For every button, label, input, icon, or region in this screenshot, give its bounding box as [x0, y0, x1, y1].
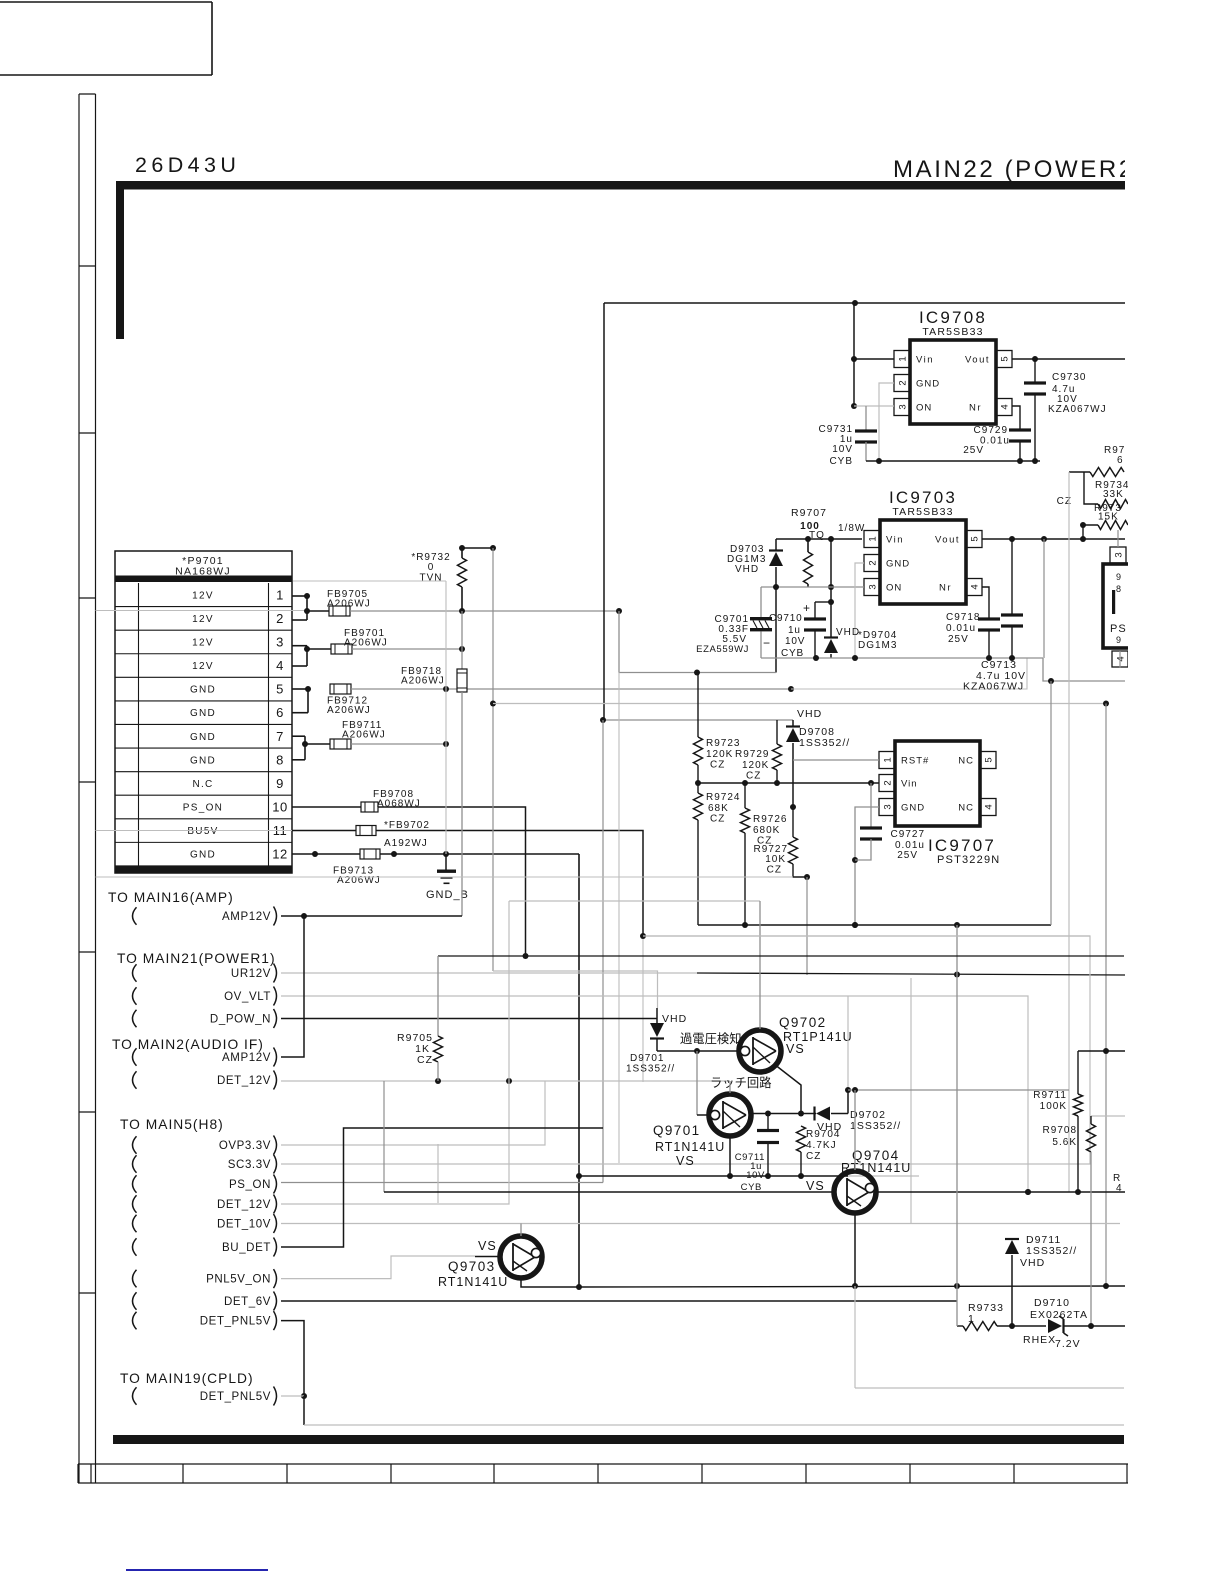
wire VHD node row y=703.5 — [493, 703, 1106, 705]
wire IC9708 input rail — [853, 303, 855, 406]
wire DET_12V row to latch — [281, 1080, 730, 1082]
node UR12V — [133, 964, 137, 982]
svg-text:3: 3 — [882, 804, 893, 809]
svg-text:*FB9702: *FB9702 — [384, 820, 430, 831]
wire BU5V from pin 11 — [292, 830, 356, 832]
diode D9710 EX0262TA zener — [1048, 1319, 1062, 1333]
wire OV_VLT — [281, 996, 1028, 1192]
svg-text:PNL5V_ON: PNL5V_ON — [206, 1273, 271, 1285]
resistor R97xx (clipped at right edge) — [1069, 471, 1090, 473]
svg-text:VS: VS — [478, 1239, 497, 1253]
resistor R9727 10K — [792, 807, 794, 837]
svg-text:10V: 10V — [785, 636, 805, 647]
svg-text:4: 4 — [969, 584, 980, 589]
svg-text:OVP3.3V: OVP3.3V — [219, 1140, 271, 1152]
svg-text:TAR5SB33: TAR5SB33 — [892, 506, 953, 518]
svg-text:ON: ON — [916, 403, 932, 414]
resistor R9732 0 ohm — [461, 548, 463, 558]
fuse FB9718 (vertical) — [457, 669, 467, 692]
svg-text:KZA067WJ: KZA067WJ — [1048, 404, 1107, 415]
wire DET_PNL5V cpld — [281, 1395, 304, 1397]
svg-text:1SS352//: 1SS352// — [626, 1064, 675, 1075]
svg-text:1SS352//: 1SS352// — [1026, 1245, 1077, 1257]
wire Q9702 collector down — [774, 1064, 801, 1114]
wire PNL5V_ON to Q9703 base — [281, 1256, 475, 1279]
wire IC9703 pin2 gnd — [855, 563, 864, 658]
wire IC9707 pin1 RST — [793, 759, 879, 761]
svg-text:VHD: VHD — [735, 564, 759, 575]
svg-text:過電圧検知: 過電圧検知 — [680, 1032, 742, 1046]
wire SC3.3V — [281, 936, 1090, 1164]
wire light vertical x=911 — [910, 978, 912, 1224]
wire light vertical x=848 upper — [847, 996, 849, 1090]
svg-text:SC3.3V: SC3.3V — [228, 1159, 271, 1171]
wire OVP3.3V — [281, 1081, 545, 1145]
capacitor C9710 — [815, 601, 831, 603]
node DET_12V (H8) — [133, 1195, 137, 1213]
svg-text:VS: VS — [676, 1154, 695, 1168]
svg-text:6: 6 — [276, 705, 284, 720]
transistor Q9702 RT1P141U — [739, 1030, 781, 1072]
svg-text:1: 1 — [867, 536, 878, 541]
svg-text:PS_ON: PS_ON — [229, 1179, 271, 1191]
svg-text:5: 5 — [999, 356, 1010, 361]
svg-text:12: 12 — [272, 847, 287, 862]
wire y=672 link — [618, 611, 620, 673]
transistor Q9703 RT1N141U — [500, 1236, 542, 1278]
wire 12V chain through FB9718 — [461, 611, 463, 669]
svg-text:5: 5 — [983, 757, 994, 762]
capacitor C9718 — [978, 617, 1000, 620]
resistor R9724 68K — [697, 783, 699, 793]
wire Q9703 base stub — [475, 1256, 501, 1258]
svg-text:9: 9 — [1116, 572, 1122, 582]
svg-text:GND: GND — [916, 379, 940, 390]
svg-text:Q9703: Q9703 — [448, 1259, 496, 1274]
wire emitter rail y=1287 right part — [580, 1286, 1125, 1287]
svg-text:0: 0 — [428, 562, 435, 573]
resistor R9733 1 ohm — [957, 1325, 963, 1327]
wire Q9702 base row — [657, 1050, 738, 1052]
svg-text:+: + — [803, 601, 811, 615]
node DET_PNL5V — [133, 1312, 137, 1330]
resistor R9705 1K — [437, 956, 439, 1036]
wire DET_6V vertical — [956, 925, 958, 1326]
wire right node vertical x=1051 — [1050, 681, 1052, 925]
wire D9702 up to node 1090 — [847, 1090, 849, 1114]
svg-text:IC9703: IC9703 — [889, 488, 957, 507]
capacitor C9731 — [865, 406, 867, 431]
wire gnd rail corner to right — [1043, 658, 1125, 681]
wire D_POW_N — [281, 1018, 657, 1020]
svg-text:IC9707: IC9707 — [928, 836, 996, 855]
svg-text:26D43U: 26D43U — [135, 153, 240, 177]
svg-text:GND: GND — [190, 685, 216, 696]
wire long mid vertical x=603 (lower) — [602, 720, 604, 1183]
svg-text:9: 9 — [1116, 635, 1122, 645]
wire 12V chain to AMP12V — [461, 692, 463, 916]
svg-text:VS: VS — [786, 1042, 805, 1056]
svg-text:MAIN22 (POWER2: MAIN22 (POWER2 — [893, 156, 1135, 183]
svg-text:DET_PNL5V: DET_PNL5V — [200, 1391, 271, 1403]
svg-text:R9708: R9708 — [1043, 1125, 1077, 1136]
svg-text:TAR5SB33: TAR5SB33 — [922, 326, 983, 338]
diode D9704 DG1M3 — [830, 602, 832, 638]
wire emitter rail y=1176 — [579, 1175, 848, 1177]
svg-text:C9727: C9727 — [891, 829, 925, 840]
svg-text:EZA559WJ: EZA559WJ — [696, 644, 749, 655]
svg-text:Vin: Vin — [886, 535, 904, 546]
svg-text:KZA067WJ: KZA067WJ — [963, 681, 1024, 693]
resistor R9704 4.7KJ — [797, 1126, 806, 1152]
wire pins 5-6 GND bracket — [292, 688, 308, 690]
svg-text:68K: 68K — [708, 803, 729, 814]
svg-text:A206WJ: A206WJ — [327, 599, 371, 610]
svg-text:AMP12V: AMP12V — [222, 1052, 271, 1064]
svg-text:R9704: R9704 — [806, 1129, 840, 1140]
wire 12V-B rail after FB9701 — [352, 648, 462, 650]
svg-text:Vin: Vin — [901, 779, 918, 790]
wire DET_12V (H8) — [281, 901, 509, 1204]
svg-text:CZ: CZ — [710, 760, 725, 771]
svg-text:VS: VS — [806, 1179, 825, 1193]
svg-text:A206WJ: A206WJ — [327, 705, 371, 716]
fuse FB9712 — [330, 684, 351, 694]
svg-text:Nr: Nr — [939, 583, 952, 594]
svg-text:9: 9 — [276, 776, 284, 791]
svg-text:12V: 12V — [192, 661, 214, 672]
wire R9707 top node — [776, 538, 862, 540]
svg-text:100K: 100K — [1040, 1101, 1067, 1112]
resistor R9723 120K — [697, 673, 699, 738]
page frame: left margin column with section ticks — [78, 94, 80, 1483]
diode D9702 1SS352 — [816, 1107, 830, 1121]
wire top feed rail — [604, 302, 1125, 304]
wire R9727 node down — [806, 877, 808, 975]
svg-text:DET_PNL5V: DET_PNL5V — [200, 1315, 271, 1327]
wire Q9702 emitter up — [759, 901, 761, 1029]
wire VS row y=901 — [509, 900, 760, 902]
svg-text:CZ: CZ — [1057, 496, 1072, 507]
svg-text:VHD: VHD — [797, 708, 822, 720]
svg-text:PST3229N: PST3229N — [937, 854, 1000, 866]
svg-text:25V: 25V — [963, 445, 984, 456]
svg-text:5.6K: 5.6K — [1052, 1137, 1077, 1148]
wire IC9708 ground rail — [866, 460, 1040, 462]
svg-text:Q9701: Q9701 — [653, 1123, 701, 1138]
wire SC/BU mid rows — [643, 935, 1090, 937]
svg-text:AMP12V: AMP12V — [222, 911, 271, 923]
diode D9703 DG1M3 — [775, 539, 777, 551]
capacitor C9713 — [1011, 539, 1013, 615]
wire resistor-net bottom rail y=925 — [698, 924, 1051, 926]
connector P9701 NA168WJ table — [115, 551, 292, 873]
IC9702 partial (clipped at right edge) — [1103, 564, 1143, 648]
wire Q9701 collector up — [729, 1081, 731, 1093]
wire PS_ON run to latch area — [378, 807, 526, 956]
svg-text:4: 4 — [983, 804, 994, 809]
svg-text:NC: NC — [958, 756, 974, 767]
svg-text:25V: 25V — [948, 634, 969, 645]
svg-text:15K: 15K — [1098, 512, 1119, 523]
svg-text:R9711: R9711 — [1033, 1090, 1067, 1101]
svg-text:GND: GND — [190, 732, 216, 743]
svg-text:TO MAIN19(CPLD): TO MAIN19(CPLD) — [120, 1371, 254, 1386]
wire IC9708 pin2 to ground rail (gray) — [879, 383, 894, 461]
wire VHD feed to D9701 — [493, 971, 658, 1008]
resistor R9708 5.6K — [1091, 1115, 1125, 1117]
svg-text:1u: 1u — [788, 625, 801, 636]
svg-text:GND: GND — [190, 850, 216, 861]
diode D9711 1SS352 — [1005, 1238, 1019, 1240]
resistor R9734 33K — [1084, 472, 1098, 504]
svg-text:Vout: Vout — [935, 535, 960, 546]
wire rail y=1192 (base row) — [384, 1191, 833, 1193]
svg-text:OV_VLT: OV_VLT — [224, 991, 271, 1003]
svg-text:4.7KJ: 4.7KJ — [806, 1140, 837, 1151]
svg-text:4: 4 — [276, 658, 284, 673]
capacitor C9727 — [870, 783, 872, 828]
svg-text:25V: 25V — [897, 850, 918, 861]
svg-text:6: 6 — [1117, 455, 1124, 466]
wire IC9703 pin3 node row — [761, 586, 864, 588]
wire pins 1-2 bracket — [292, 595, 307, 597]
wire UR12V — [281, 972, 697, 974]
wire 12V rail (faint, crossing table row 2) — [96, 610, 308, 612]
svg-text:TO MAIN16(AMP): TO MAIN16(AMP) — [108, 890, 234, 905]
resistor R9726 680K — [744, 783, 746, 808]
svg-text:Vout: Vout — [965, 355, 990, 366]
svg-text:12V: 12V — [192, 590, 214, 601]
svg-text:RHEX: RHEX — [1023, 1334, 1056, 1346]
svg-text:3: 3 — [1113, 552, 1124, 557]
svg-text:1: 1 — [968, 1313, 975, 1325]
svg-text:3: 3 — [897, 404, 908, 409]
svg-text:3: 3 — [276, 634, 284, 649]
resistor R9711 100K — [1078, 1050, 1125, 1052]
svg-text:A068WJ: A068WJ — [377, 799, 421, 810]
svg-text:VHD: VHD — [662, 1013, 687, 1025]
wire latch cross-couple — [696, 1051, 698, 1115]
svg-text:GND: GND — [190, 755, 216, 766]
svg-text:4: 4 — [1115, 656, 1126, 661]
ground GND_B — [445, 854, 447, 870]
svg-text:D_POW_N: D_POW_N — [210, 1013, 271, 1025]
wire branch x=438 lower — [437, 1144, 439, 1203]
diode D9708 1SS352 — [792, 720, 794, 727]
svg-text:RT1N141U: RT1N141U — [655, 1140, 725, 1154]
transistor Q9704 RT1N141U — [834, 1171, 876, 1213]
wire R9705 feed row y=956 — [438, 955, 1124, 957]
wire PS_ON row — [281, 1182, 603, 1184]
svg-text:CZ: CZ — [767, 865, 782, 876]
wire vertical feed x=604 — [603, 303, 605, 720]
wire IC9703 pin4 Nr — [982, 587, 989, 619]
node AMP12V — [133, 907, 137, 925]
svg-text:120K: 120K — [706, 749, 733, 760]
svg-text:DET_6V: DET_6V — [224, 1296, 271, 1308]
svg-text:RT1N141U: RT1N141U — [438, 1275, 508, 1289]
node BU_DET — [133, 1238, 137, 1256]
svg-text:RST#: RST# — [901, 756, 929, 767]
wire AMP12V link vertical — [281, 916, 304, 1057]
svg-text:12V: 12V — [192, 637, 214, 648]
svg-text:1SS352//: 1SS352// — [850, 1120, 901, 1132]
svg-text:C9730: C9730 — [1052, 372, 1086, 383]
wire IC9708 pin1 — [854, 358, 894, 360]
svg-text:CZ: CZ — [746, 771, 761, 782]
node DET_PNL5V (CPLD) — [133, 1387, 137, 1405]
wire IC9703 pin5 Vout rail — [982, 538, 1125, 540]
wire mid-page GND vertical — [578, 854, 580, 1287]
wire DET_PNL5V down link — [281, 1321, 304, 1396]
wire R9708 down — [1090, 1152, 1092, 1326]
wire GND rail light extension — [791, 658, 1027, 689]
svg-text:PS: PS — [1110, 623, 1127, 635]
wire IC9703 pin1 feed vertical — [830, 539, 832, 602]
resistor R973x 15K — [1083, 525, 1098, 539]
wire BU5V faint from left border — [96, 830, 293, 832]
svg-text:120K: 120K — [742, 760, 769, 771]
wire IC9708 pin3 (gray) — [854, 405, 894, 407]
wire DET_PNL5V return along bottom — [303, 1396, 305, 1425]
wire IC9708 pin5 Vout — [1012, 358, 1125, 360]
node SC3.3V — [133, 1155, 137, 1173]
node OV_VLT — [133, 987, 137, 1005]
IC9707 PST3229N reset IC — [895, 741, 980, 826]
node PS_ON — [133, 1175, 137, 1193]
wire lower-right return — [855, 1387, 1124, 1389]
svg-text:7: 7 — [276, 729, 284, 744]
fuse FB9705 — [307, 610, 329, 612]
svg-text:4: 4 — [999, 404, 1010, 409]
svg-text:10V: 10V — [832, 444, 853, 455]
svg-text:Vin: Vin — [916, 355, 934, 366]
wire pins 7-8 GND bracket — [292, 735, 305, 737]
svg-text:A206WJ: A206WJ — [401, 676, 445, 687]
wire BU5V run — [376, 831, 643, 937]
wire node row y=783 to IC9707 pin2 — [698, 782, 879, 784]
wire GND from pin 12 — [292, 853, 315, 855]
wire faint row y=877 — [96, 876, 794, 878]
wire GND rail after FB9712 — [351, 688, 791, 690]
svg-text:BU5V: BU5V — [187, 826, 218, 837]
wire IC9707 pin3 gnd — [855, 807, 879, 925]
page frame: top-left corner box — [0, 1, 212, 3]
svg-text:D9701: D9701 — [630, 1053, 664, 1064]
svg-text:5: 5 — [969, 536, 980, 541]
node DET_6V — [133, 1292, 137, 1310]
svg-text:NC: NC — [958, 803, 974, 814]
svg-text:PS_ON: PS_ON — [183, 803, 223, 814]
wire PS_ON from pin 10 — [292, 806, 361, 808]
svg-text:GND: GND — [190, 708, 216, 719]
blue revision underline — [126, 1569, 268, 1571]
svg-text:N.C: N.C — [192, 779, 213, 790]
wire BU_DET — [281, 1128, 603, 1247]
svg-text:0.01u: 0.01u — [946, 623, 976, 634]
node OVP3.3V — [133, 1136, 137, 1154]
svg-text:ラッチ回路: ラッチ回路 — [710, 1075, 772, 1090]
wire GND rail after FB9711 — [351, 743, 446, 745]
svg-text:8: 8 — [276, 752, 284, 767]
svg-text:2: 2 — [882, 780, 893, 785]
svg-text:4: 4 — [1116, 1183, 1122, 1194]
capacitor C9701 0.33F supercap — [760, 587, 762, 617]
svg-text:Nr: Nr — [969, 403, 982, 414]
wire R9732 top bracket — [462, 547, 493, 549]
wire 12V-A rail after FB9705 — [350, 610, 619, 612]
svg-text:−: − — [763, 636, 771, 650]
svg-text:10K: 10K — [765, 854, 786, 865]
IC9708 TAR5SB33 regulator — [910, 340, 996, 424]
bottom title block row — [78, 1463, 1130, 1465]
wire right vertical x=1106 (VHD) — [1105, 704, 1107, 1287]
svg-text:ON: ON — [886, 583, 902, 594]
capacitor C9730 — [1034, 359, 1036, 383]
svg-text:1: 1 — [276, 587, 284, 602]
svg-text:GND: GND — [886, 559, 910, 570]
wire BU5V light continuation — [642, 936, 644, 1082]
svg-text:DG1M3: DG1M3 — [858, 640, 897, 651]
svg-text:DET_12V: DET_12V — [217, 1199, 271, 1211]
wire pins 3-4 bracket — [292, 645, 307, 647]
fuse FB9708 — [361, 802, 378, 812]
wire right-column vertical x=1069 — [1068, 472, 1070, 1192]
svg-text:R9729: R9729 — [735, 749, 769, 760]
node D_POW_N — [133, 1010, 137, 1028]
svg-text:GND: GND — [901, 803, 925, 814]
svg-text:CZ: CZ — [806, 1151, 821, 1162]
wire Q9703 collector up — [520, 1224, 522, 1237]
diode D9701 1SS352 (VHD) — [656, 1008, 658, 1023]
svg-text:33K: 33K — [1103, 489, 1124, 500]
svg-text:R9726: R9726 — [753, 814, 787, 825]
node AMP12V (audio) — [133, 1048, 137, 1066]
svg-text:VHD: VHD — [1020, 1257, 1045, 1269]
svg-text:C9710: C9710 — [769, 613, 802, 624]
svg-text:CYB: CYB — [829, 456, 853, 467]
svg-text:A206WJ: A206WJ — [344, 638, 388, 649]
capacitor C9729 — [1009, 428, 1031, 431]
svg-text:2: 2 — [276, 611, 284, 626]
svg-text:Q9702: Q9702 — [779, 1015, 827, 1030]
thick border bar top — [116, 181, 1125, 190]
wire node row y=1113.5 — [752, 1113, 816, 1115]
svg-text:10: 10 — [272, 800, 287, 815]
svg-text:1SS352//: 1SS352// — [799, 737, 850, 749]
svg-text:0.01u: 0.01u — [980, 436, 1010, 447]
node PNL5V_ON — [133, 1270, 137, 1288]
wire DET_10V long row — [281, 1223, 1120, 1225]
svg-text:1: 1 — [882, 757, 893, 762]
svg-text:1/8W: 1/8W — [838, 523, 865, 534]
svg-text:2: 2 — [867, 560, 878, 565]
svg-text:R9707: R9707 — [791, 507, 827, 519]
svg-text:3: 3 — [867, 584, 878, 589]
wire node row y=720 — [603, 719, 793, 721]
svg-text:DET_12V: DET_12V — [217, 1075, 271, 1087]
svg-text:RT1N141U: RT1N141U — [841, 1161, 911, 1175]
svg-text:TVN: TVN — [420, 573, 443, 584]
wire AMP12V — [281, 915, 462, 917]
sheet title MAIN22 (POWER2 — [893, 156, 1135, 183]
svg-text:A206WJ: A206WJ — [342, 730, 386, 741]
svg-text:DET_10V: DET_10V — [217, 1218, 271, 1230]
svg-text:EX0262TA: EX0262TA — [1030, 1309, 1088, 1321]
node DET_10V — [133, 1215, 137, 1233]
thick border bar bottom — [113, 1435, 1124, 1444]
